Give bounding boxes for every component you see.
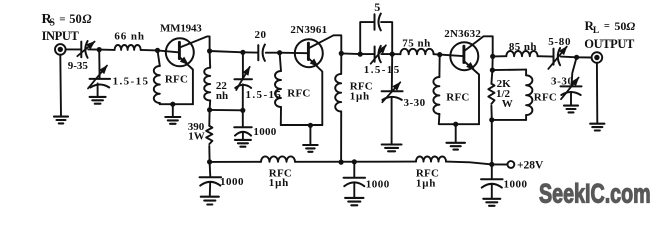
svg-text:Ω: Ω xyxy=(626,19,635,33)
svg-text:OUTPUT: OUTPUT xyxy=(584,37,635,51)
svg-text:1000: 1000 xyxy=(504,178,528,190)
svg-text:1μh: 1μh xyxy=(350,91,370,103)
svg-text:1.5-15: 1.5-15 xyxy=(364,64,401,76)
svg-text:RFC: RFC xyxy=(534,91,557,103)
svg-text:50: 50 xyxy=(614,19,626,33)
svg-text:1000: 1000 xyxy=(253,126,276,138)
svg-text:5: 5 xyxy=(374,0,380,14)
svg-text:RFC: RFC xyxy=(165,74,188,86)
svg-text:3-30: 3-30 xyxy=(551,76,574,88)
svg-text:+28V: +28V xyxy=(517,159,544,171)
svg-text:=: = xyxy=(59,14,65,26)
svg-text:9-35: 9-35 xyxy=(68,60,89,72)
svg-text:Ω: Ω xyxy=(82,12,92,26)
svg-text:RFC: RFC xyxy=(446,91,469,103)
svg-text:1.5-15: 1.5-15 xyxy=(113,76,150,88)
svg-text:1.5-15: 1.5-15 xyxy=(246,89,283,101)
svg-text:75 nh: 75 nh xyxy=(402,37,431,49)
svg-text:1000: 1000 xyxy=(220,176,244,188)
svg-text:85 nh: 85 nh xyxy=(509,41,537,53)
svg-text:1μh: 1μh xyxy=(416,177,436,189)
svg-text:2N3961: 2N3961 xyxy=(290,24,327,36)
svg-text:MM1943: MM1943 xyxy=(160,22,202,34)
svg-text:1W: 1W xyxy=(188,131,205,143)
svg-text:=: = xyxy=(604,21,610,32)
svg-text:nh: nh xyxy=(216,90,228,102)
svg-text:1000: 1000 xyxy=(366,178,390,190)
svg-text:SeekIC.com: SeekIC.com xyxy=(539,180,651,210)
svg-text:S: S xyxy=(49,18,55,29)
svg-text:1μh: 1μh xyxy=(269,177,289,189)
svg-text:50: 50 xyxy=(69,12,82,26)
svg-text:3-30: 3-30 xyxy=(404,97,426,109)
svg-text:66 nh: 66 nh xyxy=(114,30,144,42)
svg-text:RFC: RFC xyxy=(287,88,310,100)
svg-text:INPUT: INPUT xyxy=(42,29,80,43)
svg-text:W: W xyxy=(502,98,513,110)
svg-text:L: L xyxy=(593,26,599,36)
svg-text:2N3632: 2N3632 xyxy=(444,28,481,40)
svg-text:5-80: 5-80 xyxy=(548,36,571,48)
svg-text:20: 20 xyxy=(255,29,267,41)
